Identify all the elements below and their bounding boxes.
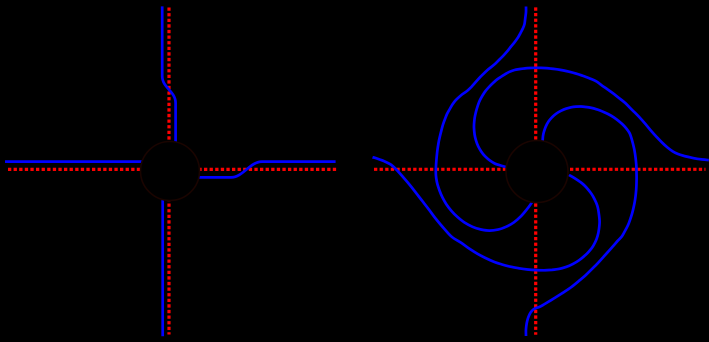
right diagram: blue spiral arm B (circle left, loops over top, exits right edge) <box>474 68 709 168</box>
left diagram: black center mask disc <box>141 142 200 201</box>
right diagram: red dashed horizontal axis <box>374 168 706 171</box>
left diagram: red dashed horizontal eigen-axis <box>8 168 336 171</box>
left diagram: red dashed vertical eigen-axis <box>167 8 170 335</box>
left diagram: blue trajectory, south vertical segment <box>161 200 164 337</box>
right diagram: blue spiral arm A (top edge, sweeps left, crosses axis, hooks to circle bottom) <box>436 7 533 231</box>
right diagram: black center mask disc <box>506 141 568 203</box>
left diagram: blue trajectory, east horizontal with S-jog <box>198 162 336 178</box>
left diagram: blue trajectory, north vertical with S-jog <box>162 6 175 142</box>
right diagram: red dashed vertical axis <box>534 7 537 334</box>
left diagram: blue trajectory, west horizontal segment <box>5 160 142 163</box>
right diagram: blue spiral arm A2 (bottom tip, kink over axis, sweeps right, arches to circle top) <box>526 106 637 336</box>
right diagram: blue spiral arm B2 (circle right, loops under bottom, exits left) <box>373 157 600 270</box>
